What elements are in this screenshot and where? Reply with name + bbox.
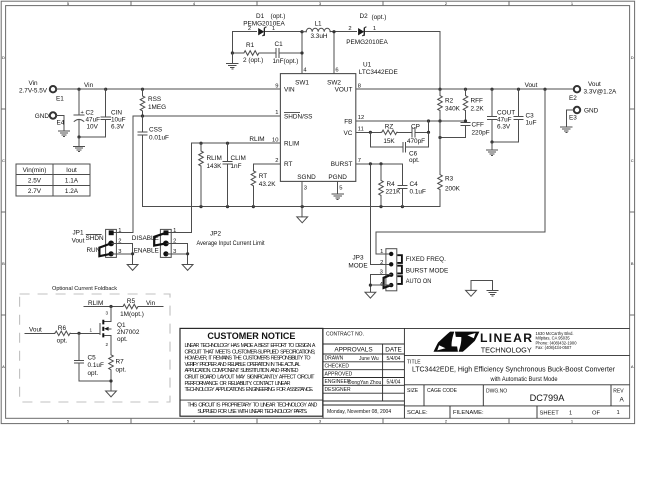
svg-text:0.1uF: 0.1uF <box>410 189 426 196</box>
ground earth below C2 <box>73 146 84 151</box>
svg-text:8: 8 <box>358 83 361 89</box>
resistor R5 <box>120 298 144 318</box>
svg-text:E2: E2 <box>569 95 577 102</box>
svg-text:MODE: MODE <box>348 262 367 269</box>
svg-text:BURST MODE: BURST MODE <box>406 268 449 275</box>
wire C2-CIN bottom <box>77 135 105 146</box>
svg-text:SCALE:: SCALE: <box>407 410 428 416</box>
svg-text:10V: 10V <box>87 124 99 131</box>
svg-text:GND: GND <box>584 108 599 115</box>
svg-text:DongYan Zhou: DongYan Zhou <box>348 380 381 386</box>
wire foldback gate line <box>25 332 100 335</box>
wire E4 to ground <box>57 116 64 131</box>
svg-text:3.3uH: 3.3uH <box>310 33 327 40</box>
svg-text:Optional Current Foldback: Optional Current Foldback <box>52 286 117 292</box>
svg-text:TECHNOLOGY APPLICATIONS ENGINE: TECHNOLOGY APPLICATIONS ENGINEERING FOR … <box>185 387 314 393</box>
svg-text:JP1: JP1 <box>72 230 83 237</box>
svg-text:VC: VC <box>344 130 353 137</box>
svg-text:RUN: RUN <box>86 247 100 254</box>
capacitor C6 <box>370 132 428 164</box>
ground triangle JP3 <box>365 292 376 298</box>
svg-text:47uF: 47uF <box>497 117 512 124</box>
svg-text:HOWEVER, IT REMAINS THE CUSTOM: HOWEVER, IT REMAINS THE CUSTOMER'S RESPO… <box>185 356 311 362</box>
svg-text:Vout: Vout <box>29 326 42 333</box>
svg-text:1uF: 1uF <box>526 120 537 127</box>
svg-text:SHDN/SS: SHDN/SS <box>284 113 312 120</box>
terminal E1 Vin <box>19 80 64 102</box>
logo address <box>536 331 578 350</box>
svg-text:143K: 143K <box>207 163 223 170</box>
wire ground rail <box>143 205 441 208</box>
border frame inner <box>6 6 630 419</box>
ground earth PGND <box>332 194 343 199</box>
svg-text:D: D <box>631 55 634 60</box>
ground earth E4 <box>58 131 69 136</box>
svg-text:DC799A: DC799A <box>530 393 566 403</box>
transistor Q1 2N7002 <box>90 307 140 350</box>
svg-text:SGND: SGND <box>297 174 316 181</box>
ground triangle JP1 <box>127 265 138 271</box>
svg-text:U1: U1 <box>363 62 372 69</box>
zone letters right <box>631 55 634 369</box>
svg-text:Vin: Vin <box>28 80 38 87</box>
ground triangle SGND <box>297 207 308 223</box>
svg-text:DWG.NO: DWG.NO <box>486 389 507 395</box>
svg-text:RLIM: RLIM <box>207 155 222 162</box>
svg-text:LINEAR: LINEAR <box>480 331 532 345</box>
ground triangle tie left <box>466 290 477 296</box>
svg-text:1: 1 <box>617 410 620 416</box>
svg-text:LTC3442EDE, High Efficiency Sy: LTC3442EDE, High Efficiency Synchronous … <box>412 365 615 374</box>
svg-text:1nF: 1nF <box>231 163 242 170</box>
wire Vout to JP3 pin1 <box>376 89 545 254</box>
svg-text:RT: RT <box>284 161 292 168</box>
svg-text:200K: 200K <box>445 185 461 192</box>
svg-text:CLIM: CLIM <box>231 155 246 162</box>
capacitor CP <box>407 123 425 145</box>
svg-text:5/4/04: 5/4/04 <box>387 356 401 362</box>
svg-text:3: 3 <box>106 311 109 316</box>
svg-text:5: 5 <box>339 185 342 191</box>
svg-text:VIN: VIN <box>284 87 295 94</box>
svg-text:CAGE CODE: CAGE CODE <box>427 388 458 394</box>
svg-text:12: 12 <box>358 115 364 121</box>
svg-text:CONTRACT NO.: CONTRACT NO. <box>326 332 364 338</box>
wire E3 to ground <box>566 110 573 127</box>
wire SHDN/SS line <box>133 114 281 117</box>
svg-text:June Wu: June Wu <box>359 356 379 362</box>
svg-text:CIN: CIN <box>111 110 122 117</box>
svg-text:SHDN: SHDN <box>85 235 103 242</box>
svg-text:+: + <box>81 110 84 116</box>
svg-text:1: 1 <box>373 26 376 32</box>
svg-text:C1: C1 <box>275 41 284 48</box>
op-amp U1 LTC3442EDE IC body <box>280 62 397 182</box>
resistor RFF <box>463 89 484 121</box>
svg-text:C4: C4 <box>410 181 419 188</box>
zone letters left <box>2 55 5 369</box>
svg-text:2N7002: 2N7002 <box>117 329 140 336</box>
svg-text:R4: R4 <box>387 181 396 188</box>
svg-text:B: B <box>2 261 5 266</box>
connector JP1 <box>72 228 122 258</box>
svg-text:E1: E1 <box>56 96 64 103</box>
capacitor C3 <box>492 89 537 142</box>
inductor L1 <box>302 21 330 41</box>
svg-text:1: 1 <box>118 228 121 234</box>
svg-text:THIS CIRCUIT IS PROPRIETARY TO: THIS CIRCUIT IS PROPRIETARY TO LINEAR TE… <box>187 402 317 408</box>
svg-text:R7: R7 <box>116 358 125 365</box>
wire top rail left <box>232 31 302 33</box>
wire foldback bottom <box>79 379 113 391</box>
svg-text:Vout: Vout <box>72 237 85 244</box>
customer notice box <box>180 328 323 416</box>
ground triangle JP2 <box>182 265 193 271</box>
ground earth below R1 <box>227 53 238 69</box>
svg-text:RLIM: RLIM <box>284 141 299 148</box>
svg-text:1MEG: 1MEG <box>148 104 166 111</box>
svg-text:1: 1 <box>569 410 572 416</box>
resistor RT <box>251 164 276 207</box>
diode D1 PEMG2010EA <box>243 13 285 36</box>
wire VC line <box>356 121 430 134</box>
wire foldback RLIM line <box>84 305 163 308</box>
svg-text:BURST: BURST <box>331 161 353 168</box>
diode D2 PEMG2010EA <box>346 13 388 46</box>
svg-text:APPROVED: APPROVED <box>325 371 353 377</box>
svg-text:LTC3442EDE: LTC3442EDE <box>359 69 398 76</box>
svg-text:2: 2 <box>380 260 383 266</box>
svg-text:JP2: JP2 <box>210 230 221 237</box>
svg-text:10uF: 10uF <box>111 117 126 124</box>
svg-text:(opt.): (opt.) <box>271 13 286 20</box>
svg-text:Average Input Current Limit: Average Input Current Limit <box>197 240 265 247</box>
svg-text:221K: 221K <box>386 189 402 196</box>
wire SW1 vertical <box>300 30 303 74</box>
resistor R7 <box>109 349 127 381</box>
wire RLIM line <box>191 142 280 145</box>
logo LINEAR wordmark <box>480 331 532 354</box>
capacitor CIN <box>101 89 126 137</box>
svg-text:LINEAR TECHNOLOGY HAS MADE A B: LINEAR TECHNOLOGY HAS MADE A BEST EFFORT… <box>185 343 316 349</box>
ground earth tie right <box>487 291 498 296</box>
svg-text:D: D <box>2 55 5 60</box>
logo LT glyph <box>434 332 480 352</box>
wire BURST to JP3 pin2 <box>370 164 391 264</box>
frame zone ticks right <box>630 109 635 315</box>
svg-text:SW1: SW1 <box>295 80 309 87</box>
resistor R1 <box>231 32 272 64</box>
svg-text:2.7V-5.5V: 2.7V-5.5V <box>19 88 48 95</box>
svg-text:Vin: Vin <box>146 300 156 307</box>
svg-text:CSS: CSS <box>149 127 162 134</box>
svg-text:R6: R6 <box>58 325 67 332</box>
svg-text:CIRCUIT THAT MEETS CUSTOMER-SU: CIRCUIT THAT MEETS CUSTOMER-SUPPLIED SPE… <box>185 349 316 355</box>
resistor R6 <box>54 325 70 345</box>
title text <box>407 360 615 383</box>
svg-text:SIZE: SIZE <box>407 388 419 394</box>
svg-text:TECHNOLOGY: TECHNOLOGY <box>481 345 532 354</box>
svg-text:9: 9 <box>275 83 278 89</box>
zone numbers top <box>67 1 574 6</box>
optional current foldback dashed box <box>20 286 170 402</box>
svg-text:with Automatic Burst Mode: with Automatic Burst Mode <box>490 376 558 383</box>
wire ground tie bridge <box>471 281 493 291</box>
svg-text:opt.: opt. <box>116 366 127 373</box>
svg-text:REV: REV <box>613 389 624 395</box>
svg-text:C5: C5 <box>88 354 97 361</box>
svg-text:FB: FB <box>344 118 352 125</box>
table Vin(min)/Iout <box>16 164 90 196</box>
connector JP3 MODE <box>348 249 448 291</box>
wire PGND stub <box>337 181 339 193</box>
svg-text:2 (opt.): 2 (opt.) <box>243 57 263 64</box>
svg-text:220pF: 220pF <box>472 130 490 137</box>
svg-text:10: 10 <box>272 137 278 143</box>
svg-text:Monday, November 08, 2004: Monday, November 08, 2004 <box>327 409 391 415</box>
wire Vin rail <box>57 88 281 91</box>
ground earth below COUT <box>486 140 497 155</box>
svg-text:Q1: Q1 <box>117 322 126 329</box>
wire BURST line <box>356 162 403 165</box>
svg-text:6.3V: 6.3V <box>111 124 125 131</box>
capacitor CSS <box>138 116 169 207</box>
svg-text:43.2K: 43.2K <box>259 181 276 188</box>
svg-text:340K: 340K <box>445 106 461 113</box>
terminal E2 Vout <box>569 81 617 102</box>
svg-text:SUPPLIED FOR USE WITH LINEAR T: SUPPLIED FOR USE WITH LINEAR TECHNOLOGY … <box>197 409 307 415</box>
svg-text:CIRUIT BOARD LAYOUT MAY SIGNIF: CIRUIT BOARD LAYOUT MAY SIGNIFICANTLY AF… <box>185 375 316 381</box>
terminal E3 GND <box>569 107 599 122</box>
svg-text:RLIM: RLIM <box>88 300 103 307</box>
svg-text:2: 2 <box>106 342 109 347</box>
svg-text:SHEET: SHEET <box>540 410 560 416</box>
svg-text:DISABLE: DISABLE <box>132 235 159 242</box>
svg-text:R5: R5 <box>127 298 136 305</box>
resistor R3 <box>438 121 461 207</box>
capacitor C1 <box>272 41 303 65</box>
svg-text:PEMG2010EA: PEMG2010EA <box>346 39 388 46</box>
wire RLIM to JP2 pin1 <box>167 143 192 232</box>
svg-text:D1: D1 <box>256 13 265 20</box>
svg-text:1: 1 <box>173 228 176 234</box>
svg-text:6: 6 <box>335 68 338 74</box>
svg-text:(opt.): (opt.) <box>372 14 387 21</box>
terminal E4 GND <box>35 112 65 126</box>
svg-text:B: B <box>631 261 634 266</box>
svg-text:2: 2 <box>248 26 251 32</box>
svg-text:PGND: PGND <box>328 174 347 181</box>
svg-text:3: 3 <box>304 185 307 191</box>
svg-text:APPLICATION. COMPONENT SUBSTI: APPLICATION. COMPONENT SUBSTITUTION AND … <box>185 368 299 374</box>
svg-text:2: 2 <box>275 158 278 164</box>
svg-text:C: C <box>631 158 634 163</box>
svg-text:1M(opt.): 1M(opt.) <box>120 311 144 318</box>
svg-text:R1: R1 <box>246 42 255 49</box>
svg-text:1: 1 <box>275 110 278 116</box>
svg-text:SW2: SW2 <box>327 80 341 87</box>
capacitor C5 <box>74 333 104 381</box>
svg-text:15K: 15K <box>383 138 395 145</box>
capacitor CLIM <box>223 143 246 206</box>
svg-text:RSS: RSS <box>148 96 161 103</box>
svg-text:C2: C2 <box>86 110 95 117</box>
svg-text:RZ: RZ <box>385 123 394 130</box>
svg-text:1: 1 <box>380 249 383 255</box>
capacitor COUT <box>487 89 515 142</box>
svg-text:6.3V: 6.3V <box>497 124 511 131</box>
wire top rail middle <box>330 32 440 89</box>
svg-text:Vin: Vin <box>84 82 94 89</box>
svg-text:Vout: Vout <box>588 81 601 88</box>
svg-text:47uF: 47uF <box>86 117 101 124</box>
svg-text:VERIFY PROPER AND RELIABLE OPE: VERIFY PROPER AND RELIABLE OPERATION IN … <box>185 362 301 368</box>
svg-text:5/4/04: 5/4/04 <box>387 379 401 385</box>
svg-text:3.3V@1.2A: 3.3V@1.2A <box>584 88 618 95</box>
svg-text:0.01uF: 0.01uF <box>149 135 169 142</box>
svg-text:1.1A: 1.1A <box>65 177 79 184</box>
svg-text:1.2A: 1.2A <box>65 188 79 195</box>
capacitor C2 <box>74 89 100 137</box>
svg-text:CHECKED: CHECKED <box>325 364 350 370</box>
ground triangle foldback <box>106 391 117 397</box>
svg-text:opt.: opt. <box>57 338 68 345</box>
approvals block text <box>325 332 402 415</box>
title block frame <box>323 328 630 418</box>
svg-text:2: 2 <box>348 26 351 32</box>
svg-text:2.2K: 2.2K <box>471 106 485 113</box>
svg-text:FILENAME:: FILENAME: <box>453 410 484 416</box>
svg-text:DRAWN: DRAWN <box>325 356 344 362</box>
svg-text:RLIM: RLIM <box>249 136 264 143</box>
frame zone ticks left <box>1 109 5 315</box>
svg-text:L1: L1 <box>314 21 322 28</box>
wire SGND stub <box>301 181 303 206</box>
wire FB line <box>356 119 467 122</box>
svg-text:RT: RT <box>259 173 267 180</box>
capacitor C4 <box>398 164 426 207</box>
svg-text:R2: R2 <box>445 98 454 105</box>
svg-text:A: A <box>2 364 5 369</box>
resistor R2 <box>438 89 461 121</box>
svg-text:1: 1 <box>90 328 93 333</box>
svg-text:FIXED FREQ.: FIXED FREQ. <box>406 256 446 263</box>
svg-text:APPROVALS: APPROVALS <box>334 347 372 354</box>
svg-text:PERFORMANCE OR RELIABILITY.: PERFORMANCE OR RELIABILITY. CONTACT LINE… <box>185 381 291 387</box>
wire JP3 pin3 pin4 to ground <box>369 275 391 293</box>
svg-text:JP3: JP3 <box>352 255 363 262</box>
svg-text:DESIGNER: DESIGNER <box>325 387 352 393</box>
resistor RZ <box>381 123 397 145</box>
svg-text:C: C <box>2 158 5 163</box>
frame zone ticks top <box>131 1 509 5</box>
svg-text:CFF: CFF <box>472 122 485 129</box>
wire SHDN/SS to JP1 pin1 <box>112 116 133 233</box>
capacitor CFF <box>438 121 489 139</box>
svg-text:CUSTOMER NOTICE: CUSTOMER NOTICE <box>207 331 295 341</box>
svg-text:opt.: opt. <box>88 370 99 377</box>
resistor RSS <box>140 89 166 116</box>
svg-text:11: 11 <box>358 127 364 133</box>
svg-text:D2: D2 <box>360 13 369 20</box>
frame zone ticks bottom <box>131 418 509 423</box>
wire JP1 pin2 pin3 to ground <box>112 243 134 264</box>
svg-text:Vin(min): Vin(min) <box>23 167 47 174</box>
svg-text:CP: CP <box>411 123 420 130</box>
svg-text:AUTO ON: AUTO ON <box>406 278 432 285</box>
svg-text:VOUT: VOUT <box>335 87 353 94</box>
resistor R4 <box>379 164 401 207</box>
ground earth E3 <box>561 127 572 132</box>
svg-text:opt.: opt. <box>117 336 128 343</box>
svg-text:DATE: DATE <box>385 347 402 354</box>
svg-text:COUT: COUT <box>497 110 515 117</box>
wire RT line <box>253 163 280 165</box>
svg-text:2.5V: 2.5V <box>28 177 42 184</box>
resistor RLIM <box>199 143 222 206</box>
svg-text:Iout: Iout <box>66 167 77 174</box>
svg-text:1: 1 <box>272 26 275 32</box>
connector JP2 <box>132 228 265 258</box>
size cage dwg row <box>407 388 625 403</box>
svg-text:OF: OF <box>592 410 601 416</box>
wire JP2 pin2 pin3 to ground <box>167 243 189 264</box>
svg-text:opt.: opt. <box>409 157 420 164</box>
zone numbers bottom <box>67 419 574 424</box>
svg-text:C3: C3 <box>526 113 535 120</box>
wire SW2 vertical <box>332 30 335 74</box>
svg-text:R3: R3 <box>445 175 454 182</box>
svg-text:470pF: 470pF <box>407 138 425 145</box>
svg-text:A: A <box>631 364 634 369</box>
wire Vout rail <box>356 88 574 91</box>
svg-text:Fax: (408)434-0507: Fax: (408)434-0507 <box>536 345 573 350</box>
svg-text:E3: E3 <box>569 114 577 121</box>
svg-text:Vout: Vout <box>525 82 538 89</box>
svg-text:7: 7 <box>358 158 361 164</box>
svg-text:0.1uF: 0.1uF <box>88 362 104 369</box>
svg-text:GND: GND <box>35 113 50 120</box>
svg-text:1nF(opt.): 1nF(opt.) <box>273 58 299 65</box>
svg-text:ENABLE: ENABLE <box>134 248 159 255</box>
scale filename sheet row <box>407 410 620 417</box>
svg-text:RFF: RFF <box>471 98 484 105</box>
svg-text:2.7V: 2.7V <box>28 188 42 195</box>
svg-text:A: A <box>620 397 625 404</box>
